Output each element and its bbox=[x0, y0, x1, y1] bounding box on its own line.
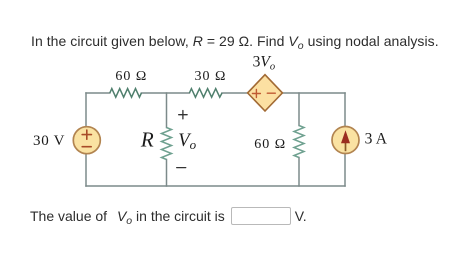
svg-text:60 Ω: 60 Ω bbox=[115, 69, 147, 84]
svg-text:3Vo: 3Vo bbox=[253, 54, 275, 73]
svg-text:Vo: Vo bbox=[178, 131, 196, 152]
svg-text:30 V: 30 V bbox=[33, 133, 65, 149]
svg-text:R: R bbox=[140, 127, 154, 151]
svg-text:3 A: 3 A bbox=[365, 131, 388, 148]
svg-text:60 Ω: 60 Ω bbox=[254, 137, 286, 152]
svg-text:30 Ω: 30 Ω bbox=[195, 69, 227, 84]
